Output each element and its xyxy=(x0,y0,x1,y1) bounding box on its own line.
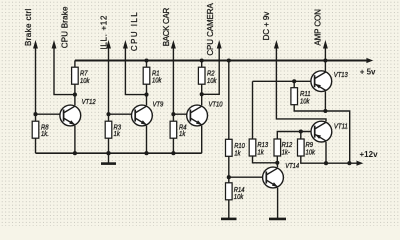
wire Brake ctrl vertical xyxy=(35,45,37,121)
arrow +12v right xyxy=(357,161,364,166)
wire VT13/R11 base wire xyxy=(253,80,315,82)
svg-text:1k: 1k xyxy=(257,148,264,157)
wire R11 top stub xyxy=(293,81,295,87)
arrow +5v right xyxy=(366,58,373,63)
wire R12 top corner + base wire to VT11 xyxy=(277,132,314,139)
resistor R2 xyxy=(198,67,205,84)
resistor R1 xyxy=(143,67,150,84)
wire R13 top vertical from base wire xyxy=(252,81,254,138)
node R9 top xyxy=(299,129,303,133)
arrow BACK CAR xyxy=(171,40,176,49)
svg-text:VT11: VT11 xyxy=(334,121,348,130)
node +12v rail xyxy=(347,161,351,165)
svg-text:1k: 1k xyxy=(114,129,121,138)
wire CPU CAMERA vertical + corner left xyxy=(202,45,220,94)
svg-text:ILL. +12: ILL. +12 xyxy=(99,15,108,50)
svg-text:AMP CON: AMP CON xyxy=(314,9,323,46)
wire CPU ILL vertical + corner xyxy=(125,45,146,95)
wire R9 top stub xyxy=(300,132,302,139)
transistor VT9 xyxy=(132,105,153,126)
transistor VT14 xyxy=(263,167,284,188)
resistor R11 xyxy=(291,88,298,105)
svg-text:10k: 10k xyxy=(234,192,244,201)
wire AMP CON vertical into VT13 collector xyxy=(324,45,326,71)
wire R1 column xyxy=(146,61,148,68)
svg-text:1k: 1k xyxy=(234,149,241,158)
svg-text:CPU CAMERA: CPU CAMERA xyxy=(206,3,215,56)
svg-text:10k: 10k xyxy=(152,76,162,85)
wire R4 bottom xyxy=(172,138,174,153)
wire VT9 emitter xyxy=(146,126,148,154)
resistor R8 xyxy=(32,121,39,138)
node VT12 emitter/gnd xyxy=(73,151,77,155)
arrow AMP CON xyxy=(323,40,328,49)
node VT12 base xyxy=(33,112,37,116)
wire VT12 base xyxy=(36,113,64,115)
node VT9 base xyxy=(106,112,110,116)
svg-text:10k: 10k xyxy=(207,76,217,85)
wire R10 bottom to base node xyxy=(228,156,230,183)
svg-text:10k: 10k xyxy=(80,76,90,85)
svg-text:Brake ctrl: Brake ctrl xyxy=(24,8,33,46)
svg-text:+12v: +12v xyxy=(360,150,379,159)
svg-text:VT9: VT9 xyxy=(153,99,164,108)
wire VT10 base xyxy=(173,113,190,115)
ground bus wire xyxy=(36,152,202,154)
wire R7 column xyxy=(74,61,76,68)
node R4 gnd xyxy=(171,151,175,155)
svg-text:VT10: VT10 xyxy=(209,99,223,108)
wire VT14 emitter + ground stub xyxy=(277,188,279,219)
arrow Brake ctrl xyxy=(33,40,38,49)
arrow CPU Brake xyxy=(52,40,57,49)
wire R12 bottom to dot xyxy=(276,156,278,163)
node R11 top xyxy=(292,79,296,83)
node VT14 base xyxy=(227,175,231,179)
wire R11 bottom corner to emitter rail xyxy=(294,105,350,164)
wire VT14 base xyxy=(229,176,266,178)
svg-text:1k: 1k xyxy=(179,129,186,138)
svg-text:10k: 10k xyxy=(306,148,316,157)
svg-text:VT13: VT13 xyxy=(334,70,348,79)
wire VT12 emitter xyxy=(74,126,76,154)
resistor R13 xyxy=(249,139,256,156)
resistor R10 xyxy=(226,139,233,156)
transistor VT10 xyxy=(187,105,208,126)
resistor R4 xyxy=(170,121,177,138)
arrow CPU CAMERA xyxy=(217,40,222,49)
wire R9 bottom corner to +12v rail xyxy=(301,156,358,163)
node R7/VT12 collector xyxy=(73,93,77,97)
node VT13 collector/bus xyxy=(323,58,327,62)
transistor VT12 xyxy=(60,105,81,126)
node R1 top xyxy=(144,58,148,62)
arrow ILL xyxy=(106,40,111,49)
ground bar under VT14 xyxy=(269,218,286,221)
node R2/VT10 collector xyxy=(200,92,204,96)
wire ILL vertical xyxy=(108,45,110,121)
node VT13 emitter rail xyxy=(323,109,327,113)
svg-text:1k-: 1k- xyxy=(282,148,291,157)
resistor R9 xyxy=(298,139,305,156)
resistor R7 xyxy=(72,67,79,84)
wire CPU Brake vertical + corner xyxy=(54,45,75,95)
transistor VT13 xyxy=(311,71,332,92)
wire R3 bottom xyxy=(108,138,110,153)
svg-text:VT12: VT12 xyxy=(82,97,96,106)
wire R10 column from bus xyxy=(228,61,230,140)
wire DC+9v vertical + corner to VT11 collector xyxy=(276,45,326,121)
svg-text:10k: 10k xyxy=(300,97,310,106)
arrow CPU ILL xyxy=(123,40,128,49)
ground bar under R14 xyxy=(221,218,237,221)
wire R14 bottom + ground stub xyxy=(228,200,230,219)
wire VT10 emitter xyxy=(201,126,203,154)
svg-text:CPU Brake: CPU Brake xyxy=(61,6,70,48)
wire R2 column xyxy=(201,61,203,68)
node VT9 emitter/gnd xyxy=(144,151,148,155)
wire VT13 emitter down xyxy=(324,92,326,111)
svg-text:VT14: VT14 xyxy=(285,161,299,170)
node VT10 base xyxy=(171,112,175,116)
wire BACK CAR vertical xyxy=(172,45,174,121)
svg-text:1k.: 1k. xyxy=(41,129,49,138)
svg-text:+ 5v: + 5v xyxy=(360,67,376,76)
transistor VT11 xyxy=(311,121,332,142)
wire VT14 collector xyxy=(276,163,278,167)
wire R13 bottom corner to VT14 collector dot xyxy=(253,156,278,163)
svg-text:DC + 9v: DC + 9v xyxy=(262,12,271,41)
arrow DC+9v xyxy=(274,40,279,49)
wire R8 bottom xyxy=(35,138,37,153)
top +5v bus wire xyxy=(75,60,368,62)
wire VT9 base xyxy=(109,113,136,115)
node VT14 collector xyxy=(275,161,279,165)
wire VT11 emitter down xyxy=(325,142,327,163)
ground symbol bar xyxy=(101,162,116,165)
ground symbol stub xyxy=(108,153,110,163)
resistor R12 xyxy=(274,139,281,156)
node R10 top xyxy=(227,58,231,62)
node R1/VT9 collector xyxy=(144,93,148,97)
node R3 gnd xyxy=(106,151,110,155)
resistor R14 xyxy=(226,183,233,200)
svg-text:BACK CAR: BACK CAR xyxy=(162,7,171,46)
node VT11 emitter rail xyxy=(324,161,328,165)
resistor R3 xyxy=(105,121,112,138)
node R2 top xyxy=(200,58,204,62)
